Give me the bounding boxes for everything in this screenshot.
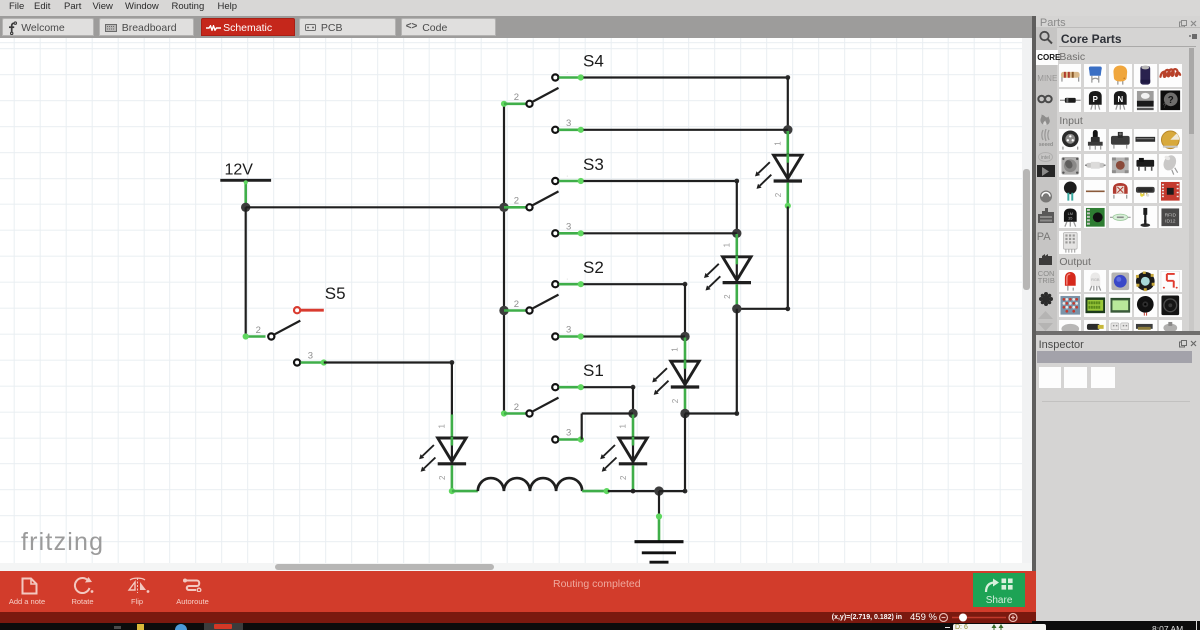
wire 12V bus horizontal: [246, 206, 504, 208]
label S4: [583, 52, 604, 71]
wire connector: [578, 127, 584, 133]
pin 1 mark: [566, 224, 568, 231]
svg-text:1: 1: [722, 242, 731, 247]
wire connector: [578, 333, 584, 339]
wire pin stub: [559, 438, 584, 441]
junction rail S2 pin2: [499, 306, 508, 315]
switch S4: [526, 74, 558, 133]
switch S5: [268, 307, 300, 366]
wire junction to mid rail: [685, 412, 737, 414]
switch S1: [526, 384, 558, 443]
inductor L1: [478, 478, 582, 491]
corner node: [785, 306, 790, 311]
svg-text:2: 2: [671, 398, 680, 403]
wire connector: [578, 74, 584, 80]
node D4 bus: [631, 489, 636, 494]
svg-text:N: N: [1117, 95, 1123, 104]
wire right rail down: [787, 207, 789, 309]
wire pin stub: [559, 232, 584, 235]
corner node: [450, 360, 455, 365]
svg-text:S2: S2: [583, 258, 604, 277]
pin 1 mark: [566, 327, 568, 334]
junction ground node: [654, 486, 663, 495]
pin 1 mark: [566, 68, 568, 75]
label S5: [325, 284, 346, 303]
wire 12V to junction: [244, 182, 247, 208]
pin 2 label (D5): [438, 475, 447, 480]
wire connector: [449, 488, 455, 494]
switch S2: [526, 281, 558, 340]
svg-text:2: 2: [514, 92, 519, 103]
wire S3 pin3 to junction: [584, 232, 737, 234]
wire D4 cathode: [632, 465, 635, 491]
wire to inductor: [452, 490, 478, 493]
corner node: [734, 179, 739, 184]
pin 2 label (D4): [619, 475, 628, 480]
wire down to D3: [684, 284, 686, 336]
wire connector: [604, 488, 610, 494]
wire pin stub: [559, 129, 584, 132]
wire S2 pin1: [584, 283, 686, 285]
svg-text:S5: S5: [325, 284, 346, 303]
wire S4 pin3 to junction: [584, 129, 788, 131]
wire bus to right rail: [659, 490, 685, 492]
svg-text:?: ?: [1168, 95, 1174, 106]
pin 1 label (D1): [773, 141, 782, 146]
svg-text:.: .: [566, 68, 568, 75]
wire D1 cathode: [786, 183, 789, 207]
LED D1: [755, 154, 802, 189]
junction S4 pin3 D1: [783, 125, 792, 134]
wire connector: [578, 178, 584, 184]
svg-text:seeed: seeed: [1039, 142, 1053, 147]
svg-text:RGB: RGB: [1091, 276, 1100, 281]
power symbol 12V: [220, 179, 271, 182]
svg-text:3: 3: [308, 351, 313, 362]
svg-text:2: 2: [256, 325, 261, 336]
svg-text:.: .: [566, 224, 568, 231]
wire S1 pin3 to junction: [582, 412, 633, 414]
label S2: [583, 258, 604, 277]
wire S2 pin3 to junction: [584, 335, 686, 337]
wire D3 cathode: [684, 389, 687, 413]
corner node: [683, 489, 688, 494]
LED D4: [600, 437, 647, 472]
junction D2 right rail: [732, 304, 741, 313]
pin 2 label (D2): [723, 294, 732, 299]
svg-text:2: 2: [514, 402, 519, 413]
wire S5 pin3 stub: [301, 361, 324, 364]
corner node: [785, 75, 790, 80]
wire S5 pin1 unrouted: [300, 309, 323, 312]
svg-text:1: 1: [671, 347, 680, 352]
junction S1 pins D4: [628, 409, 637, 418]
wire to S2 pin2: [504, 309, 527, 312]
svg-text:2: 2: [619, 475, 628, 480]
wire connector: [578, 436, 584, 442]
junction S2 pin3 D3: [680, 332, 689, 341]
svg-text:.: .: [566, 120, 568, 127]
wire connector: [243, 333, 249, 339]
svg-text:ID12: ID12: [1165, 218, 1176, 224]
corner node: [631, 385, 636, 390]
pin 2 label (S5): [256, 325, 261, 336]
pin 1 mark: [566, 430, 568, 437]
wire bottom bus: [608, 490, 659, 492]
svg-text:12V: 12V: [225, 162, 254, 179]
wire connector: [321, 359, 327, 365]
wire down to bottom bus: [684, 414, 686, 492]
svg-text:2: 2: [723, 294, 732, 299]
pin 1 mark: [566, 172, 568, 179]
wire S1 pin3 up: [581, 414, 583, 440]
pin 1 label (D5): [437, 424, 446, 429]
wire 12V down to S5: [245, 207, 247, 336]
junction D3 cathode: [680, 409, 689, 418]
wire down to junction: [632, 387, 634, 413]
LED D3: [652, 360, 699, 395]
pin 3 label (S2): [566, 325, 571, 336]
junction 12V node: [241, 203, 250, 212]
svg-text:2: 2: [514, 196, 519, 207]
pin 3 label (S4): [566, 118, 571, 129]
wire D5 cathode: [451, 465, 454, 491]
svg-text:RFID: RFID: [1165, 212, 1177, 218]
wire to D2 junction: [737, 308, 788, 310]
wire D3 anode: [684, 338, 687, 362]
label 12V: [225, 162, 254, 179]
switch S3: [526, 178, 558, 237]
wire to ground: [658, 491, 660, 514]
wire S5 pin3 right: [324, 361, 452, 363]
wire connector: [578, 281, 584, 287]
wire D2 anode: [735, 234, 738, 257]
ground: [635, 542, 684, 563]
pin 1 label (D3): [671, 347, 680, 352]
wire connector: [244, 180, 248, 184]
wire connector: [578, 230, 584, 236]
wire S1 pin1: [584, 386, 634, 388]
junction rail S3 pin2: [499, 203, 508, 212]
svg-text:1: 1: [437, 424, 446, 429]
svg-text:.: .: [566, 172, 568, 179]
pin 1 mark: [566, 120, 568, 127]
wire ground green: [658, 514, 661, 541]
pin 3 label (S5): [308, 351, 313, 362]
wire D4 anode: [632, 415, 635, 439]
pin 3 label (S3): [566, 221, 571, 232]
svg-text:2: 2: [438, 475, 447, 480]
wire to S4 pin2: [504, 103, 527, 106]
wire D5 anode: [451, 415, 454, 439]
wire connector: [656, 513, 662, 519]
LED D5: [419, 437, 466, 472]
svg-text:2: 2: [514, 299, 519, 310]
wire pin stub: [559, 283, 584, 286]
svg-text:.: .: [566, 378, 568, 385]
wire pin stub: [559, 386, 584, 389]
wire mid rail down: [736, 309, 738, 414]
pin 1 label (D2): [722, 242, 731, 247]
wire left rail: [503, 104, 505, 414]
pin 2 label (S1): [514, 402, 519, 413]
wire to S3 pin2: [504, 206, 527, 209]
wire S4 pin1 to right rail: [584, 76, 788, 78]
LED D2: [704, 256, 751, 291]
pin 2 label (D1): [774, 192, 783, 197]
wire down to D5: [451, 363, 453, 415]
label S1: [583, 361, 604, 380]
wire connector: [501, 101, 507, 107]
wire connector: [578, 384, 584, 390]
label S3: [583, 155, 604, 174]
svg-text:.: .: [566, 430, 568, 437]
svg-text:S1: S1: [583, 361, 604, 380]
svg-text:.: .: [566, 327, 568, 334]
wire pin stub: [559, 335, 584, 338]
wire to S5 pin2: [246, 335, 266, 338]
pin 2 label (S4): [514, 92, 519, 103]
wire connector: [785, 203, 791, 209]
svg-text:S4: S4: [583, 52, 604, 71]
end node: [734, 411, 739, 416]
wire down to D1: [787, 78, 789, 130]
pin 2 label (S2): [514, 299, 519, 310]
svg-text:1: 1: [773, 141, 782, 146]
wire D1 anode: [786, 131, 789, 155]
pin 1 label (D4): [619, 424, 628, 429]
pin 3 label (S1): [566, 428, 571, 439]
pin 1 mark: [566, 275, 568, 282]
pin 2 label (D3): [671, 398, 680, 403]
svg-text:1: 1: [619, 424, 628, 429]
wire connector: [501, 410, 507, 416]
pin 1 mark: [566, 378, 568, 385]
svg-text:P: P: [1093, 95, 1098, 104]
wire inductor to bus: [582, 490, 608, 493]
wire S3 pin1: [584, 180, 737, 182]
svg-text:intel: intel: [1041, 155, 1050, 161]
wire down to D2: [736, 181, 738, 233]
wire to S1 pin2: [504, 412, 527, 415]
wire pin stub: [559, 180, 584, 183]
pin 2 label (S3): [514, 196, 519, 207]
corner node: [683, 282, 688, 287]
svg-text:.: .: [566, 275, 568, 282]
wire pin stub: [559, 76, 584, 79]
junction S3 pin3 D2: [732, 229, 741, 238]
svg-text:S3: S3: [583, 155, 604, 174]
wire D2 cathode: [735, 284, 738, 308]
svg-text:2: 2: [774, 192, 783, 197]
